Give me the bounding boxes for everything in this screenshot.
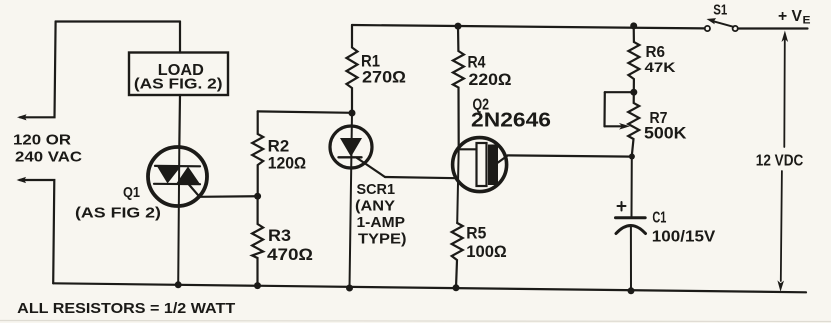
node R4 top on rail [455, 23, 462, 30]
wire top-left horizontal [56, 20, 180, 22]
node R2-R3-gate junction [254, 193, 261, 200]
SCR1 circle [330, 126, 372, 168]
wire from top rail down to LOAD box [179, 22, 181, 53]
wire node to C1 top plate [631, 156, 633, 216]
wire Q2 base lead vertical through circle [457, 148, 459, 223]
svg-text:470Ω: 470Ω [267, 246, 313, 264]
12VDC dimension upper arrowhead [782, 31, 789, 43]
svg-text:47K: 47K [645, 59, 676, 75]
label C1 100/15V [652, 210, 716, 246]
transistor Q2 emitter bar filled [488, 145, 498, 186]
label SCR1 (ANY 1-AMP TYPE) [355, 182, 407, 248]
svg-text:R2: R2 [268, 138, 290, 156]
switch S1 blade arrowhead [707, 18, 717, 24]
svg-text:(AS FIG 2): (AS FIG 2) [75, 205, 161, 222]
label Q1 [75, 184, 161, 222]
label 12 VDC [756, 153, 804, 170]
svg-text:(ANY: (ANY [355, 199, 395, 215]
wire triac Q1 gate diagonal [189, 184, 200, 197]
12VDC dimension upper shaft [783, 38, 786, 147]
node R6-R7 junction [630, 89, 637, 96]
svg-text:C1: C1 [652, 210, 666, 227]
svg-text:+ V: + V [778, 8, 803, 25]
label R4 220ohm [468, 54, 512, 90]
triac Q1 left triangle [157, 166, 181, 183]
switch S1 blade [714, 21, 734, 27]
resistor R5 [452, 223, 463, 288]
node R1 bottom SCR anode junction [349, 110, 356, 117]
wire R7 wiper bracket arrow lead [605, 125, 625, 127]
label LOAD (AS FIG. 2) [134, 62, 223, 93]
SCR1 cathode bar [339, 156, 362, 158]
resistor R4 [453, 26, 464, 148]
svg-text:ALL RESISTORS = 1/2 WATT: ALL RESISTORS = 1/2 WATT [17, 300, 235, 317]
wire C1 to bottom rail [630, 226, 632, 291]
wire Q2 emitter diagonal [498, 156, 508, 163]
wire SCR gate diagonal [357, 158, 385, 177]
label +VE [778, 8, 811, 27]
node SCR cathode on rail [346, 285, 353, 292]
capacitor C1 top plate [616, 216, 646, 219]
12VDC dimension lower shaft [781, 171, 782, 281]
wire through triac down to bottom rail [178, 148, 179, 285]
transistor Q2 base bar outline [477, 143, 487, 186]
label 120 OR 240 VAC [13, 132, 82, 166]
node R7-C1-emitter junction [629, 154, 635, 160]
switch S1 right contact [733, 26, 738, 31]
resistor R3 [252, 196, 263, 285]
svg-text:Q1: Q1 [123, 184, 140, 201]
svg-text:R3: R3 [268, 227, 291, 245]
transistor Q2 circle [453, 138, 507, 192]
label S1 [713, 3, 727, 19]
capacitor C1 curved plate [616, 226, 646, 234]
svg-text:2N2646: 2N2646 [471, 110, 551, 132]
R7 wiper arrowhead [619, 123, 630, 130]
wire R7 wiper bracket top [605, 91, 634, 93]
label R2 120ohm [268, 138, 307, 173]
scan artifact line [0, 321, 831, 322]
svg-text:S1: S1 [713, 3, 727, 19]
svg-text:R5: R5 [466, 225, 486, 243]
AC upper terminal arrowhead [17, 114, 27, 120]
svg-text:TYPE): TYPE) [358, 232, 407, 248]
svg-text:12 VDC: 12 VDC [756, 153, 804, 170]
wire left AC upper terminal lead [20, 22, 56, 118]
svg-text:100Ω: 100Ω [466, 243, 507, 261]
svg-text:500K: 500K [644, 125, 687, 143]
wire SCR gate to Q2 base1 lead [385, 177, 458, 178]
wire switch to +VE terminal [738, 27, 808, 29]
label R7 500K [644, 110, 687, 143]
resistor R1 [347, 25, 358, 113]
svg-text:240 VAC: 240 VAC [15, 149, 82, 166]
svg-text:1-AMP: 1-AMP [357, 215, 406, 231]
capacitor C1 plus sign [618, 202, 626, 211]
12VDC dimension lower arrowhead [777, 280, 784, 291]
label ALL RESISTORS note [17, 300, 235, 317]
SCR1 triangle [340, 138, 362, 157]
bottom rail [53, 283, 806, 292]
LOAD box [129, 53, 228, 96]
svg-text:E: E [803, 15, 811, 27]
triac Q1 upper bar MT2 [155, 165, 200, 168]
svg-text:100/15V: 100/15V [652, 229, 716, 246]
svg-text:(AS FIG. 2): (AS FIG. 2) [134, 76, 223, 93]
wire R7 wiper bracket left [603, 92, 605, 126]
resistor R7 [628, 92, 639, 156]
triac Q1 circle [148, 147, 207, 206]
svg-text:SCR1: SCR1 [357, 182, 396, 198]
wire SCR anode-cathode vertical [350, 113, 353, 288]
node triac bottom on rail [175, 281, 182, 288]
wire left AC lower terminal lead [20, 180, 55, 283]
resistor R6 [628, 26, 639, 92]
wire triac gate to R2-R3 junction [200, 195, 258, 198]
svg-text:220Ω: 220Ω [469, 71, 512, 89]
svg-text:270Ω: 270Ω [362, 69, 406, 87]
node C1 bottom on rail [628, 287, 635, 294]
AC lower terminal arrowhead [17, 177, 27, 183]
label R3 470ohm [267, 227, 313, 264]
svg-text:120Ω: 120Ω [268, 155, 307, 173]
svg-text:120 OR: 120 OR [13, 132, 71, 149]
label R6 47K [645, 44, 676, 75]
node R6 top on rail [630, 22, 637, 29]
switch S1 left contact [705, 26, 710, 31]
label R5 100ohm [466, 225, 507, 262]
wire LOAD box to triac Q1 anode [178, 95, 181, 148]
triac Q1 right triangle [176, 167, 200, 185]
top rail [352, 25, 705, 28]
label Q2 2N2646 [471, 97, 551, 132]
triac Q1 lower bar MT1 [154, 183, 200, 186]
wire Q2 base2 stub [459, 148, 477, 150]
node R5 bottom on rail [453, 284, 460, 291]
wire R2 top to R1 bottom junction [258, 111, 352, 112]
resistor R2 [252, 111, 263, 196]
node R3 bottom on rail [254, 282, 261, 289]
wire Q2 emitter to R7-C1 node [508, 155, 633, 156]
svg-text:R4: R4 [468, 54, 487, 72]
label R1 270ohm [361, 53, 406, 87]
